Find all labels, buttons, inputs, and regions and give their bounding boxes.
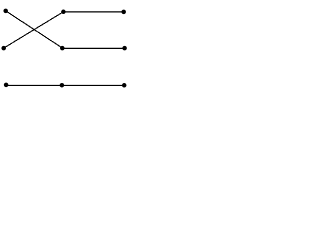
node A top-left [3,9,8,14]
node D mid-left [1,46,6,51]
wire A-E diagonal [6,11,63,48]
node B top-middle [61,10,66,15]
node H bottom-middle [60,83,65,88]
wire B-C horizontal [63,11,123,13]
node I bottom-right [122,83,127,88]
wire D-B diagonal [4,12,64,48]
node G bottom-left [4,83,9,88]
node C top-right [121,10,126,15]
node F mid-right [122,46,127,51]
wire G-I horizontal [6,84,124,86]
node E mid-middle [60,46,65,51]
wire E-F horizontal [62,47,124,49]
